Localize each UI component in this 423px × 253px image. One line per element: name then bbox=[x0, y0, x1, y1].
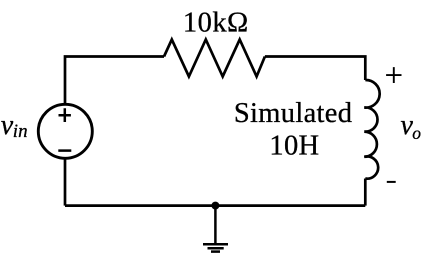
ground bar 1 bbox=[203, 243, 228, 246]
ground stem bbox=[214, 206, 217, 244]
ground bar 2 bbox=[208, 247, 224, 250]
wire top-right segment bbox=[265, 57, 365, 81]
resistor R 10k zigzag bbox=[164, 40, 265, 77]
wire inductor to bottom-right corner bbox=[364, 179, 367, 206]
wire left-bottom segment bbox=[64, 158, 67, 206]
voltage source V1 circle bbox=[38, 104, 92, 158]
svg-text:10kΩ: 10kΩ bbox=[183, 7, 249, 38]
voltage source plus sign bbox=[59, 108, 71, 122]
svg-text:in: in bbox=[13, 121, 28, 142]
svg-text:10H: 10H bbox=[269, 130, 319, 161]
ground bar 3 bbox=[211, 250, 220, 253]
svg-text:Simulated: Simulated bbox=[234, 98, 352, 129]
svg-text:o: o bbox=[412, 123, 421, 143]
polarity plus for vo bbox=[386, 67, 401, 83]
wire top-left segment bbox=[65, 57, 164, 106]
wire bottom bbox=[65, 204, 365, 207]
node junction dot bbox=[211, 202, 219, 210]
inductor L simulated 10H bbox=[364, 80, 379, 179]
polarity minus for vo bbox=[387, 181, 396, 183]
voltage source minus sign bbox=[58, 149, 71, 152]
